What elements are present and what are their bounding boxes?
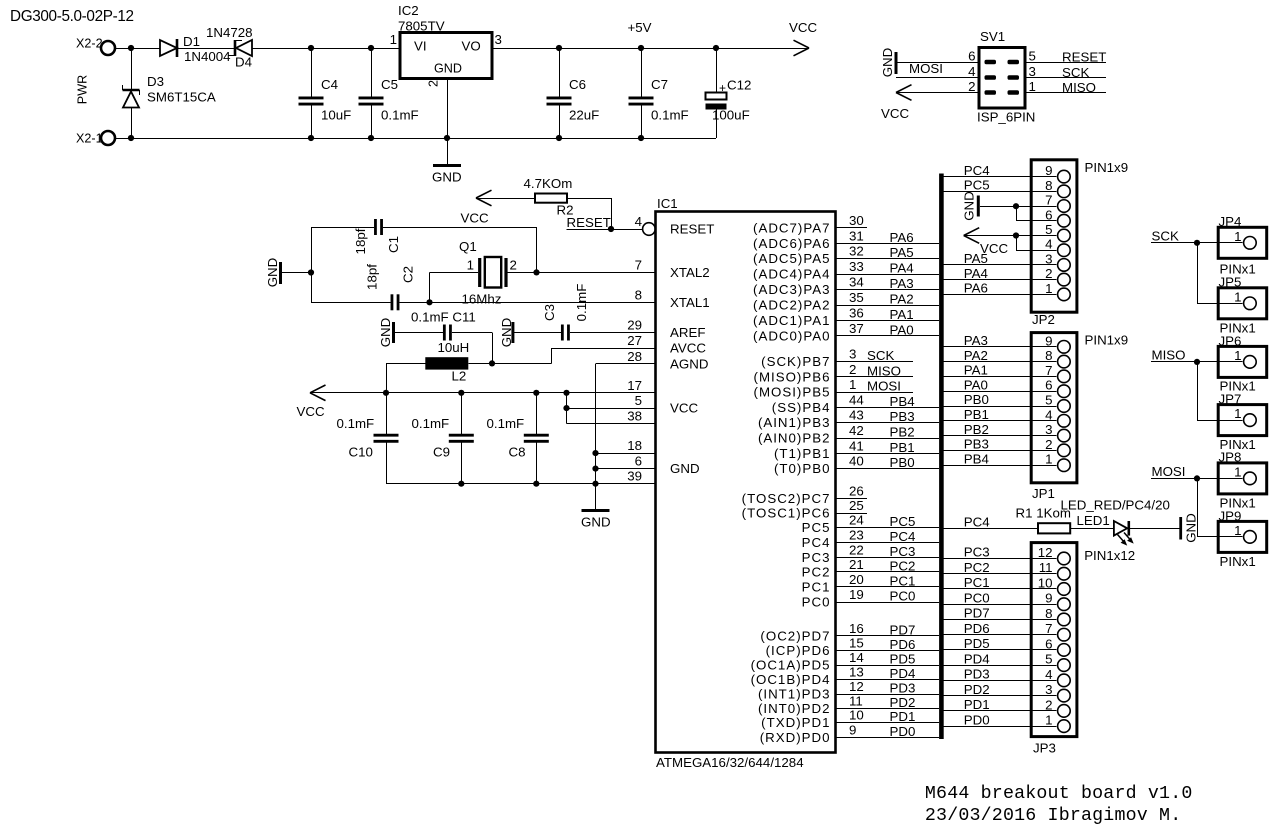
svg-text:43: 43 xyxy=(849,408,864,423)
wire AREF xyxy=(571,332,656,334)
capacitor C4 xyxy=(299,48,324,138)
svg-text:35: 35 xyxy=(849,290,864,305)
svg-text:19: 19 xyxy=(849,587,864,602)
svg-text:1: 1 xyxy=(1029,79,1036,94)
connector JP6 xyxy=(1218,346,1267,377)
label RESET ISP xyxy=(1062,49,1106,64)
label PINx1 JP4 xyxy=(1220,262,1256,277)
svg-text:7: 7 xyxy=(1045,363,1052,378)
svg-text:4: 4 xyxy=(635,214,642,229)
wire PD4 to bus xyxy=(836,679,940,681)
wire PA4 JP2 xyxy=(944,279,1057,281)
label C5 xyxy=(381,77,398,92)
wire PD6 to bus xyxy=(836,650,940,652)
wire VCC-R2 xyxy=(476,198,535,200)
wire PA6 JP2 xyxy=(944,294,1057,296)
pin 29 IC1 xyxy=(627,318,642,333)
svg-text:(ADC1)PA1: (ADC1)PA1 xyxy=(753,313,830,328)
svg-text:PA2: PA2 xyxy=(964,348,988,363)
svg-text:31: 31 xyxy=(849,228,864,243)
svg-text:8: 8 xyxy=(635,287,642,302)
svg-text:GND: GND xyxy=(432,170,462,185)
wire PA1 to bus xyxy=(836,320,940,322)
label D4 xyxy=(235,55,252,70)
label VCC ISP xyxy=(881,106,909,121)
svg-text:38: 38 xyxy=(627,409,642,424)
label MOSI net xyxy=(1152,464,1186,479)
label MOSI ISP xyxy=(909,61,943,76)
svg-text:3: 3 xyxy=(1045,682,1052,697)
wire PC1 JP3 xyxy=(944,588,1057,590)
svg-text:PD0: PD0 xyxy=(964,712,990,727)
label C7 xyxy=(651,77,668,92)
connector SV1 xyxy=(979,48,1025,109)
label (MISO)PB6 IC1 xyxy=(754,369,831,384)
connector X2-2 xyxy=(76,37,115,56)
wire PB0 JP1 xyxy=(944,406,1057,408)
ground GND led xyxy=(1181,513,1199,543)
pin 37 IC1 xyxy=(849,321,864,336)
wire VCC JP2 xyxy=(964,232,1057,250)
label XTAL1 IC1 xyxy=(670,295,710,310)
svg-text:D4: D4 xyxy=(235,55,252,70)
label PINx1 JP9 xyxy=(1220,554,1256,569)
pin 14 IC1 xyxy=(849,650,864,665)
svg-text:18pf: 18pf xyxy=(353,228,368,254)
svg-text:C1: C1 xyxy=(386,236,401,253)
svg-text:PB2: PB2 xyxy=(890,425,915,440)
svg-text:VCC: VCC xyxy=(297,404,325,419)
svg-text:2: 2 xyxy=(1045,266,1052,281)
label C8 xyxy=(509,445,526,460)
label AGND IC1 xyxy=(670,356,708,371)
ic IC1 ATMEGA xyxy=(656,212,836,753)
label PA1 JP1 xyxy=(964,363,988,378)
pin 3 IC2 xyxy=(495,32,502,47)
svg-text:PIN1x9: PIN1x9 xyxy=(1085,160,1129,175)
svg-text:PB3: PB3 xyxy=(964,437,989,452)
label PC3 net xyxy=(890,544,916,559)
svg-text:XTAL2: XTAL2 xyxy=(670,265,710,280)
label PINx1 JP8 xyxy=(1220,496,1256,511)
label PA2 net xyxy=(890,292,914,307)
wire PA3 to bus xyxy=(836,289,940,291)
label (OC1A)PD5 IC1 xyxy=(751,658,831,673)
svg-text:20: 20 xyxy=(849,572,864,587)
pin 2 Q1 xyxy=(510,258,517,273)
inductor L2 xyxy=(425,357,468,369)
svg-text:29: 29 xyxy=(627,318,642,333)
svg-text:(INT1)PD3: (INT1)PD3 xyxy=(758,687,831,702)
vcc arrow rail xyxy=(310,385,326,401)
svg-text:MISO: MISO xyxy=(1152,348,1186,363)
pin 1 JP1 xyxy=(1045,452,1070,472)
svg-text:PC1: PC1 xyxy=(802,579,831,594)
label PA6 JP2 xyxy=(964,281,988,296)
svg-text:PD6: PD6 xyxy=(890,637,916,652)
pin 21 IC1 xyxy=(849,557,864,572)
svg-text:5: 5 xyxy=(635,393,642,408)
svg-text:7: 7 xyxy=(635,257,642,272)
label PD7 net xyxy=(890,622,916,637)
wire PC1 to bus xyxy=(836,586,940,588)
pin 25 IC1 xyxy=(849,498,864,513)
connector X2-1 xyxy=(76,131,115,146)
svg-text:3: 3 xyxy=(1029,64,1036,79)
label PD5 JP3 xyxy=(964,636,990,651)
svg-text:+: + xyxy=(719,81,726,95)
svg-text:39: 39 xyxy=(627,469,642,484)
pin 1 JP8 xyxy=(1197,464,1256,484)
label IC1 xyxy=(657,196,678,211)
svg-text:11: 11 xyxy=(1039,560,1053,575)
pin 7 JP2 xyxy=(1045,193,1070,213)
wire PB2 JP1 xyxy=(944,435,1057,437)
svg-text:14: 14 xyxy=(849,650,864,665)
svg-text:C4: C4 xyxy=(321,77,338,92)
svg-text:JP3: JP3 xyxy=(1033,741,1056,756)
pin 1 IC1 xyxy=(849,377,856,392)
wire PA1 JP1 xyxy=(944,376,1057,378)
svg-text:22uF: 22uF xyxy=(569,108,599,123)
label JP2 xyxy=(1032,312,1055,327)
pin 8 IC1 xyxy=(635,287,642,302)
label MISO net xyxy=(867,363,901,378)
svg-text:10uH: 10uH xyxy=(438,340,470,355)
ground GND xtal xyxy=(265,258,281,288)
svg-text:+5V: +5V xyxy=(628,20,652,35)
pin 9 JP2 xyxy=(1045,163,1070,183)
wire IC2 pin2 xyxy=(447,79,449,165)
svg-text:PB1: PB1 xyxy=(964,407,989,422)
label PC2 net xyxy=(890,558,916,573)
label 10uF xyxy=(321,108,351,123)
svg-text:26: 26 xyxy=(849,483,864,498)
svg-text:(MOSI)PB5: (MOSI)PB5 xyxy=(754,385,831,400)
svg-text:16Mhz: 16Mhz xyxy=(462,292,502,307)
pin 5 JP3 xyxy=(1045,652,1070,672)
bus vertical xyxy=(939,174,944,740)
svg-text:(ADC0)PA0: (ADC0)PA0 xyxy=(753,328,830,343)
label PD0 JP3 xyxy=(964,712,990,727)
svg-text:1: 1 xyxy=(1045,281,1052,296)
wire PD5 to bus xyxy=(836,665,940,667)
pin 2 SV1 xyxy=(968,79,975,94)
label PA4 net xyxy=(890,261,914,276)
capacitor C2 xyxy=(311,294,430,310)
svg-text:PINx1: PINx1 xyxy=(1220,554,1256,569)
pin 42 IC1 xyxy=(849,423,864,438)
label ATMEGA16/32/644/1284 xyxy=(656,755,804,770)
capacitor C8 xyxy=(524,393,549,484)
wire PA2 to bus xyxy=(836,305,940,307)
pin 10 JP3 xyxy=(1038,575,1070,595)
wire SCK ISP xyxy=(1025,77,1106,79)
label +5V xyxy=(628,20,652,35)
svg-text:AGND: AGND xyxy=(670,356,708,371)
svg-text:15: 15 xyxy=(849,635,864,650)
label C3 xyxy=(542,304,557,321)
svg-text:(TXD)PD1: (TXD)PD1 xyxy=(761,715,830,730)
label (TOSC2)PC7 IC1 xyxy=(742,491,831,506)
label (OC1B)PD4 IC1 xyxy=(751,672,831,687)
svg-text:2: 2 xyxy=(968,79,975,94)
wire PB1 JP1 xyxy=(944,420,1057,422)
svg-text:23/03/2016 Ibragimov M.: 23/03/2016 Ibragimov M. xyxy=(925,806,1181,826)
label JP6 xyxy=(1219,334,1242,349)
svg-text:PD7: PD7 xyxy=(964,606,990,621)
svg-text:PB4: PB4 xyxy=(890,394,915,409)
wire gnd-xtal xyxy=(282,227,314,302)
svg-text:VCC: VCC xyxy=(670,401,698,416)
wire PD0 JP3 xyxy=(944,726,1057,728)
svg-text:PB0: PB0 xyxy=(964,392,989,407)
wire PC3 JP3 xyxy=(944,558,1057,560)
pin 6 JP3 xyxy=(1045,636,1070,656)
label PB0 net xyxy=(890,455,915,470)
label (T1)PB1 IC1 xyxy=(774,446,831,461)
svg-text:GND: GND xyxy=(880,48,895,78)
svg-text:(RXD)PD0: (RXD)PD0 xyxy=(760,730,831,745)
svg-text:(ADC5)PA5: (ADC5)PA5 xyxy=(753,251,830,266)
pin 1 JP7 xyxy=(1197,406,1256,426)
svg-text:(TOSC2)PC7: (TOSC2)PC7 xyxy=(742,491,831,506)
label VCC IC1 xyxy=(670,401,698,416)
pin 3 JP2 xyxy=(1045,251,1070,271)
pin 36 IC1 xyxy=(849,306,864,321)
label VO xyxy=(462,39,481,54)
svg-text:5: 5 xyxy=(1045,222,1052,237)
svg-text:C3: C3 xyxy=(542,304,557,321)
label PIN1x9 JP1 xyxy=(1085,333,1129,348)
svg-text:D1: D1 xyxy=(183,34,200,49)
ground GND ISP xyxy=(880,48,896,78)
svg-text:C8: C8 xyxy=(509,445,526,460)
ground GND C3 xyxy=(499,318,514,348)
wire stub pin 25 xyxy=(836,513,868,515)
wire stub pin 30 xyxy=(836,227,868,229)
svg-text:PC2: PC2 xyxy=(802,564,831,579)
svg-text:0.1mF C11: 0.1mF C11 xyxy=(411,310,476,325)
pin 11 IC1 xyxy=(849,693,863,708)
wire VIN1 xyxy=(115,45,160,51)
label PA4 JP2 xyxy=(964,266,988,281)
label PC0 net xyxy=(890,589,916,604)
svg-text:SCK: SCK xyxy=(1152,229,1179,244)
vcc arrow ISP xyxy=(896,85,912,101)
label PA5 JP2 xyxy=(964,251,988,266)
svg-text:PA0: PA0 xyxy=(890,322,914,337)
wire SCK xyxy=(1151,240,1200,304)
wire GND rail top xyxy=(115,135,716,141)
label 7805TV xyxy=(398,19,445,34)
pin 9 JP1 xyxy=(1045,333,1070,353)
pin 8 JP3 xyxy=(1045,606,1070,626)
pin 5 JP2 xyxy=(1045,222,1070,242)
svg-text:1: 1 xyxy=(1234,289,1241,304)
label ISP_6PIN xyxy=(977,110,1035,125)
svg-text:AVCC: AVCC xyxy=(670,341,706,356)
svg-text:(OC1B)PD4: (OC1B)PD4 xyxy=(751,672,831,687)
wire PC4 to bus xyxy=(836,542,940,544)
pin 2 IC1 xyxy=(849,362,856,377)
svg-text:JP6: JP6 xyxy=(1219,334,1242,349)
svg-text:MISO: MISO xyxy=(867,363,901,378)
svg-text:1: 1 xyxy=(1234,229,1241,244)
pin 9 IC1 xyxy=(849,722,856,737)
reset bubble IC1 xyxy=(643,223,656,236)
pin 28 IC1 xyxy=(627,349,642,364)
svg-text:6: 6 xyxy=(1045,378,1052,393)
label PC1 JP3 xyxy=(964,575,990,590)
svg-text:C9: C9 xyxy=(433,445,450,460)
svg-text:1N4728: 1N4728 xyxy=(206,25,253,40)
pin 34 IC1 xyxy=(849,275,864,290)
label 4.7KOm xyxy=(524,176,573,191)
svg-text:JP4: JP4 xyxy=(1219,214,1242,229)
pin 3 IC1 xyxy=(849,347,856,362)
pin 7 IC1 xyxy=(635,257,642,272)
label 100uF xyxy=(712,108,750,123)
wire +5V xyxy=(492,45,808,51)
svg-text:MISO: MISO xyxy=(1062,80,1096,95)
wire PC5 to bus xyxy=(836,527,940,529)
svg-text:GND: GND xyxy=(581,515,611,530)
svg-text:PA3: PA3 xyxy=(890,276,914,291)
svg-text:4: 4 xyxy=(1045,667,1052,682)
label PC2 JP3 xyxy=(964,560,990,575)
label PD3 JP3 xyxy=(964,667,990,682)
wire PB2 to bus xyxy=(836,438,940,440)
label PC4 IC1 xyxy=(802,535,831,550)
svg-text:1: 1 xyxy=(849,377,856,392)
pin 6 JP1 xyxy=(1045,378,1070,398)
pin 9 JP3 xyxy=(1045,591,1070,611)
pin 10 IC1 xyxy=(849,708,864,723)
svg-text:L2: L2 xyxy=(452,369,467,384)
wire PB1 to bus xyxy=(836,453,940,455)
label XTAL2 IC1 xyxy=(670,265,710,280)
wire PC0 to bus xyxy=(836,602,940,604)
wire PC0 JP3 xyxy=(944,604,1057,606)
svg-text:7: 7 xyxy=(1045,193,1052,208)
svg-text:34: 34 xyxy=(849,275,864,290)
svg-text:MOSI: MOSI xyxy=(909,61,943,76)
label PC2 IC1 xyxy=(802,564,831,579)
label SCK net xyxy=(867,348,894,363)
wire PB0 to bus xyxy=(836,468,940,470)
svg-text:Q1: Q1 xyxy=(459,239,477,254)
wire PD6 JP3 xyxy=(944,634,1057,636)
svg-text:8: 8 xyxy=(1045,348,1052,363)
wire PD7 JP3 xyxy=(944,619,1057,621)
svg-text:1: 1 xyxy=(1234,523,1241,538)
label PB4 net xyxy=(890,394,915,409)
ground GND C11 xyxy=(378,318,394,348)
pin 5 IC1 xyxy=(635,393,642,408)
svg-text:PC5: PC5 xyxy=(964,178,990,193)
svg-text:5: 5 xyxy=(1029,49,1036,64)
svg-text:VCC: VCC xyxy=(881,106,909,121)
label PD4 JP3 xyxy=(964,651,990,666)
label JP4 xyxy=(1219,214,1242,229)
label C4 xyxy=(321,77,338,92)
svg-text:17: 17 xyxy=(627,378,642,393)
pin 7 JP3 xyxy=(1045,621,1070,641)
diode D1 xyxy=(160,39,177,57)
wire PC3 to bus xyxy=(836,557,940,559)
connector JP1 xyxy=(1031,333,1077,483)
label PB0 JP1 xyxy=(964,392,989,407)
svg-text:PC4: PC4 xyxy=(890,529,916,544)
svg-text:PD6: PD6 xyxy=(964,621,990,636)
pin 2 JP3 xyxy=(1045,697,1070,717)
label 22uF xyxy=(569,108,599,123)
label PD3 net xyxy=(890,681,916,696)
wire R2-RESET xyxy=(567,198,643,232)
svg-text:22: 22 xyxy=(849,542,864,557)
pin 31 IC1 xyxy=(849,228,864,243)
wire MOSI xyxy=(1151,475,1200,537)
svg-text:(OC2)PD7: (OC2)PD7 xyxy=(760,628,830,643)
pin 4 JP2 xyxy=(1045,237,1070,257)
svg-text:(ADC6)PA6: (ADC6)PA6 xyxy=(753,236,830,251)
pin 5 JP1 xyxy=(1045,393,1070,413)
diode D3 zener xyxy=(123,48,140,138)
wire MISO ISP xyxy=(1025,92,1106,94)
pin 18 IC1 xyxy=(627,438,642,453)
pin 4 IC1 xyxy=(635,214,642,229)
label C6 xyxy=(569,77,586,92)
label PA0 JP1 xyxy=(964,377,988,392)
pin 4 JP1 xyxy=(1045,407,1070,427)
label PD1 JP3 xyxy=(964,697,990,712)
wire PD2 to bus xyxy=(836,708,940,710)
wire xtal1 node xyxy=(426,272,655,305)
svg-text:9: 9 xyxy=(1045,591,1052,606)
svg-text:(ADC4)PA4: (ADC4)PA4 xyxy=(753,267,830,282)
svg-text:SCK: SCK xyxy=(1062,65,1089,80)
connector JP7 xyxy=(1218,405,1267,436)
wire PC4 JP2 xyxy=(944,176,1057,178)
wire PD1 JP3 xyxy=(944,710,1057,712)
wire PB4 JP1 xyxy=(944,465,1057,467)
svg-text:(AIN0)PB2: (AIN0)PB2 xyxy=(758,431,831,446)
label IC2 xyxy=(398,3,419,18)
label PB3 net xyxy=(890,409,915,424)
pins SV1 xyxy=(985,60,1020,95)
capacitor C7 xyxy=(629,48,654,138)
label PD5 net xyxy=(890,652,916,667)
svg-text:(INT0)PD2: (INT0)PD2 xyxy=(758,701,831,716)
wire PA2 JP1 xyxy=(944,361,1057,363)
led LED1 xyxy=(1114,521,1129,536)
label C2 xyxy=(401,266,416,283)
pin 1 Q1 xyxy=(467,258,474,273)
pin 6 SV1 xyxy=(968,49,975,64)
pin 11 JP3 xyxy=(1039,560,1071,580)
label PA1 net xyxy=(890,307,914,322)
title date xyxy=(925,806,1181,826)
pin 2 IC2 xyxy=(427,80,441,87)
label SM6T15CA xyxy=(147,90,216,105)
pin 1 JP5 xyxy=(1197,289,1256,309)
svg-text:GND: GND xyxy=(499,318,514,348)
label PD2 net xyxy=(890,695,916,710)
pin 33 IC1 xyxy=(849,259,864,274)
svg-text:PD0: PD0 xyxy=(890,724,916,739)
label (AIN0)PB2 IC1 xyxy=(758,431,831,446)
